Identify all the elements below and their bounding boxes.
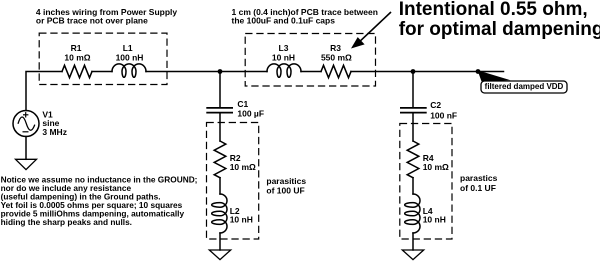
svg-text:of 0.1 UF: of 0.1 UF (460, 183, 496, 193)
svg-text:of 100 UF: of 100 UF (266, 185, 304, 195)
svg-text:10 nH: 10 nH (423, 215, 446, 225)
svg-text:R3: R3 (330, 43, 341, 53)
svg-text:hiding the sharp peaks and nul: hiding the sharp peaks and nulls. (1, 217, 132, 227)
svg-text:parastics: parastics (460, 173, 498, 183)
svg-text:the 100uF and 0.1uF caps: the 100uF and 0.1uF caps (232, 15, 336, 25)
svg-text:C1: C1 (237, 99, 248, 109)
svg-text:10 mΩ: 10 mΩ (423, 162, 449, 172)
svg-text:L3: L3 (279, 43, 289, 53)
svg-text:C2: C2 (430, 100, 441, 110)
svg-text:10 nH: 10 nH (230, 215, 253, 225)
svg-text:10 mΩ: 10 mΩ (64, 53, 90, 63)
svg-text:100 µF: 100 µF (237, 109, 264, 119)
svg-text:550 mΩ: 550 mΩ (321, 53, 352, 63)
svg-text:3 MHz: 3 MHz (42, 127, 67, 137)
svg-text:for optimal dampening: for optimal dampening (399, 19, 600, 40)
svg-text:or PCB trace not over plane: or PCB trace not over plane (36, 15, 148, 25)
svg-text:filtered damped VDD: filtered damped VDD (485, 82, 564, 91)
svg-text:R1: R1 (71, 43, 82, 53)
svg-text:10 mΩ: 10 mΩ (230, 162, 256, 172)
svg-text:10 nH: 10 nH (272, 53, 295, 63)
svg-text:100 nF: 100 nF (430, 111, 457, 121)
svg-text:100 nH: 100 nH (116, 53, 144, 63)
svg-text:L1: L1 (123, 43, 133, 53)
svg-text:Intentional 0.55 ohm,: Intentional 0.55 ohm, (399, 0, 588, 20)
